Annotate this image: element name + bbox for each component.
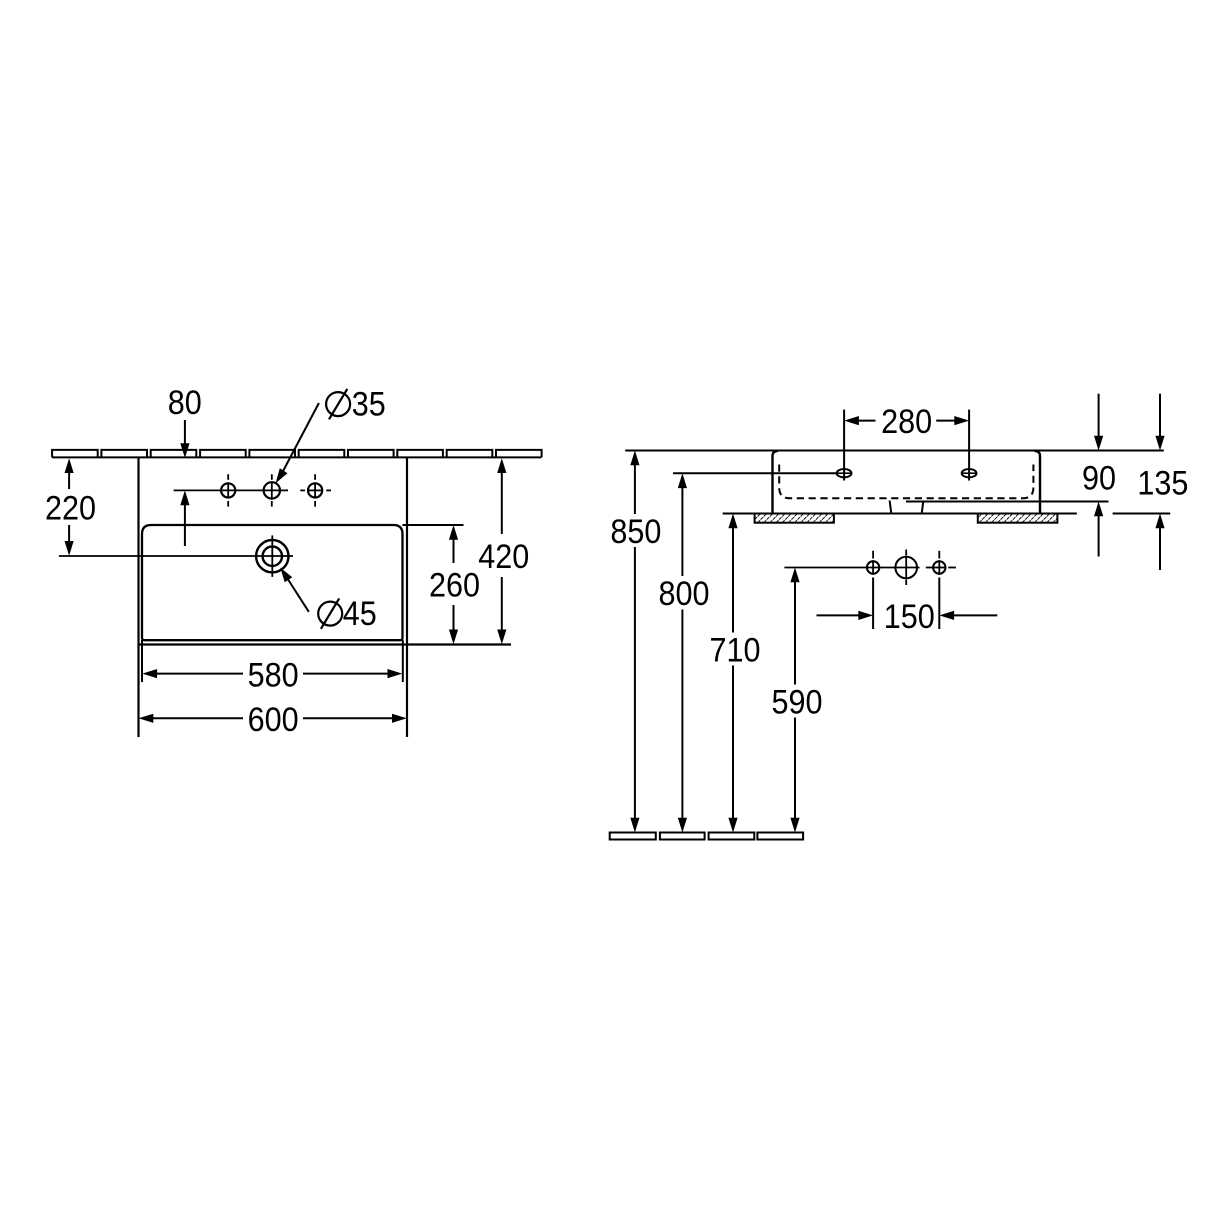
dimension 150 (tap hole spacing) — [817, 578, 998, 636]
hidden inner bowl contour (dashed) — [779, 465, 1033, 499]
svg-text:150: 150 — [884, 598, 935, 636]
tap hole centreline (elevation) — [784, 567, 956, 569]
dimension 135 (basin height at wall) — [1113, 394, 1189, 570]
dimension 260 (bowl depth) — [429, 525, 480, 644]
floor section bar (4 tile segments) — [610, 833, 803, 840]
svg-text:135: 135 — [1137, 464, 1188, 502]
tap hole right (elevation) — [933, 551, 945, 575]
svg-text:80: 80 — [168, 384, 202, 422]
svg-text:600: 600 — [248, 701, 299, 739]
tap hole left (elevation) — [867, 551, 879, 575]
dimension 420 (basin depth) — [478, 458, 529, 644]
dimension 850 (rim height) — [610, 451, 661, 833]
tap hole centre Ø35 (plan view) — [264, 474, 280, 506]
fixing bracket left (hatched) — [755, 514, 834, 523]
drain hole Ø45 (plan view) — [256, 535, 288, 577]
svg-text:800: 800 — [659, 575, 710, 613]
label Ø45 drain with leader arrow — [280, 568, 377, 634]
tap hole right (plan view) — [308, 474, 322, 506]
dimension 220 (rear edge to drain centre) — [45, 458, 96, 556]
svg-text:580: 580 — [248, 656, 299, 694]
dimension 90 (bowl depth, elevation) — [1082, 394, 1116, 557]
washbasin outline (elevation) — [773, 451, 1041, 514]
dimension 590 (tap line height) — [772, 568, 823, 833]
reference line at basin rim level — [625, 450, 1164, 452]
svg-text:280: 280 — [881, 403, 932, 441]
label Ø35 tap hole with leader arrow — [276, 386, 386, 484]
extension line bowl bottom — [906, 501, 1109, 503]
tap hole left (plan view) — [221, 474, 235, 506]
wall section bar (plan view, 10 tile segments on continuous wall line) — [52, 450, 541, 458]
svg-text:45: 45 — [343, 595, 377, 633]
svg-text:90: 90 — [1082, 459, 1116, 497]
svg-text:35: 35 — [352, 386, 386, 424]
mounting line under basin — [723, 513, 1077, 515]
dimension 600 (basin width) — [139, 701, 407, 739]
svg-text:850: 850 — [610, 513, 661, 551]
svg-text:590: 590 — [772, 684, 823, 722]
drain centreline (plan view) — [59, 555, 293, 557]
svg-text:220: 220 — [45, 489, 96, 527]
svg-text:710: 710 — [710, 631, 761, 669]
dimension 80 (tap holes to rear edge) — [168, 384, 202, 546]
fixing hole right (elevation) — [962, 469, 977, 477]
svg-text:420: 420 — [478, 538, 529, 576]
washbasin outer outline (plan view) — [139, 458, 512, 737]
extension line at fixing hole level — [673, 472, 838, 474]
tap hole centerline (plan view) — [174, 489, 331, 491]
dimension 580 (bowl width) — [142, 640, 403, 694]
tap hole centre (elevation) — [895, 550, 917, 586]
svg-text:260: 260 — [429, 566, 480, 604]
fixing bracket right (hatched) — [978, 514, 1058, 523]
dimension 710 (mounting line height) — [710, 514, 761, 833]
dimension 280 (fixing hole spacing) — [844, 403, 969, 481]
drain outlet (elevation) — [890, 501, 924, 513]
fixing hole left (elevation) — [837, 469, 852, 477]
inner bowl outline 580x260 (plan view) — [142, 525, 464, 640]
dimension 800 (fixing hole height) — [659, 473, 710, 832]
